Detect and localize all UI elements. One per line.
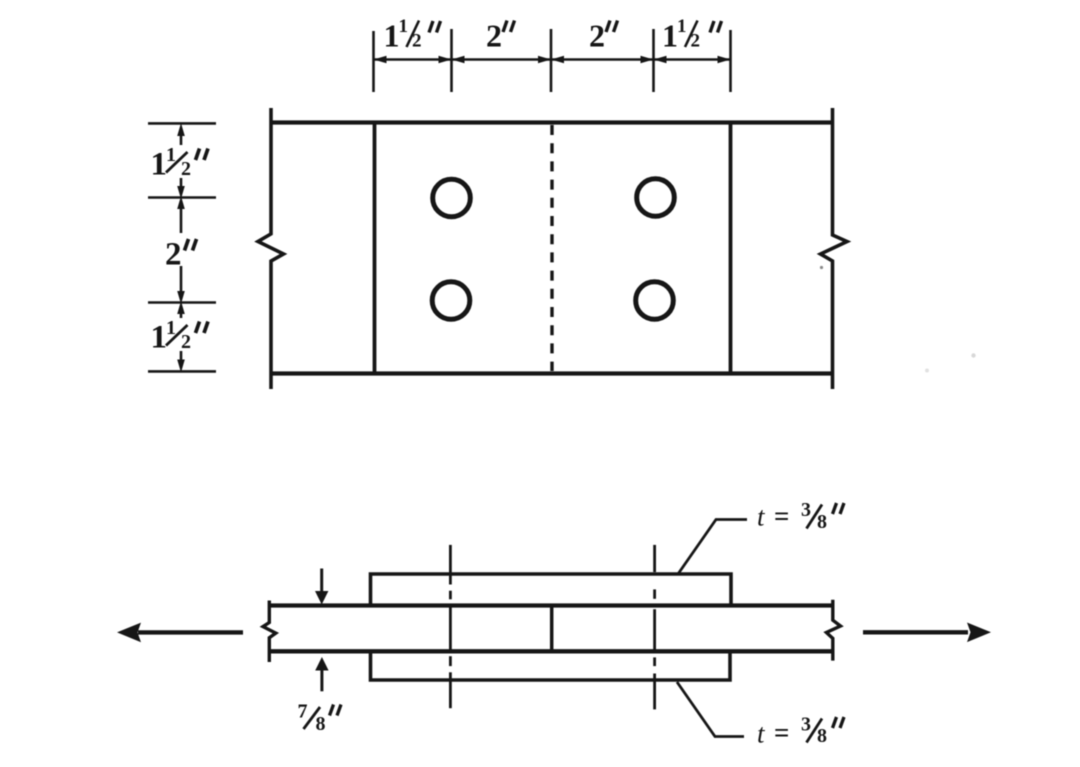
main plate bottom edge xyxy=(271,371,833,375)
left force arrowhead xyxy=(117,623,141,643)
svg-text:2: 2 xyxy=(181,331,191,353)
main plate left broken edge xyxy=(258,108,284,389)
main bar bottom edge xyxy=(270,649,833,653)
dim text 2 top second xyxy=(589,18,618,54)
bolt centerline right xyxy=(653,545,656,710)
svg-text:7: 7 xyxy=(298,701,308,723)
thickness arrow lower (up) stem xyxy=(320,670,323,691)
svg-text:8: 8 xyxy=(817,511,827,533)
svg-text:2: 2 xyxy=(691,31,701,52)
joint centerline (dashed) xyxy=(550,125,553,371)
scan speck near right break xyxy=(820,266,823,269)
bolt hole bottom-left xyxy=(432,282,470,320)
svg-text:8: 8 xyxy=(316,713,326,735)
main plate right broken edge xyxy=(821,108,848,389)
main plate top edge xyxy=(271,120,833,124)
top splice plate xyxy=(371,574,732,606)
dim text 1-1/2 left upper xyxy=(151,144,209,183)
splice plate right edge xyxy=(729,123,733,374)
dim text 2 top xyxy=(486,18,515,54)
dim text 1-1/2 top-left xyxy=(384,16,441,54)
thickness arrow upper (down) stem xyxy=(320,569,323,594)
svg-text:2: 2 xyxy=(181,158,191,180)
force arrowheads xyxy=(117,591,991,671)
bolt centerline left xyxy=(449,545,452,708)
butt joint line xyxy=(550,606,554,652)
top dimension ticks xyxy=(374,29,731,92)
faint scan speck upper xyxy=(971,353,975,357)
bolt hole top-right xyxy=(637,179,675,217)
leader line to top plate label xyxy=(678,520,747,575)
bolt hole top-left xyxy=(433,179,471,217)
faint scan speck lower xyxy=(925,369,929,373)
thickness arrowhead lower xyxy=(315,657,328,671)
svg-text:8: 8 xyxy=(817,725,827,747)
svg-text:1: 1 xyxy=(399,16,409,37)
dim text 1-1/2 top-right xyxy=(662,16,722,54)
splice plate left edge xyxy=(373,123,377,374)
main bar left broken end xyxy=(263,601,276,663)
svg-text:3: 3 xyxy=(801,499,811,521)
bottom splice plate xyxy=(371,651,731,680)
svg-text:1: 1 xyxy=(662,18,678,54)
label t = 3/8 bottom xyxy=(757,714,844,749)
left dimension stems xyxy=(180,130,183,366)
main bar right broken end xyxy=(826,600,840,661)
thickness arrowhead upper xyxy=(315,591,328,605)
thickness text 7/8 xyxy=(298,701,342,736)
dim text 2 left xyxy=(165,237,197,273)
label t = 3/8 top xyxy=(757,499,844,533)
svg-text:1: 1 xyxy=(677,16,687,37)
svg-text:1: 1 xyxy=(384,18,400,54)
svg-text:2: 2 xyxy=(412,31,422,52)
left dimension arrowheads xyxy=(177,123,185,373)
top dimension arrowheads xyxy=(374,56,731,64)
svg-text:=: = xyxy=(774,718,789,748)
svg-text:1: 1 xyxy=(151,147,168,183)
dim text 1-1/2 left lower xyxy=(151,317,209,356)
svg-text:t: t xyxy=(757,719,766,749)
bolt hole bottom-right xyxy=(636,282,674,320)
svg-text:2: 2 xyxy=(486,18,502,54)
leader line to bottom plate label xyxy=(677,682,744,737)
main bar top edge xyxy=(270,603,833,607)
svg-text:1: 1 xyxy=(151,320,168,356)
svg-text:3: 3 xyxy=(801,714,811,736)
right force arrowhead xyxy=(967,623,991,643)
left force arrow shaft xyxy=(138,630,243,634)
left dimension ticks xyxy=(148,123,216,371)
right force arrow shaft xyxy=(863,630,968,634)
top dimension line xyxy=(374,58,731,61)
svg-text:2: 2 xyxy=(589,18,605,54)
svg-text:2: 2 xyxy=(165,237,182,273)
svg-text:t: t xyxy=(757,502,766,532)
svg-text:=: = xyxy=(774,501,789,531)
